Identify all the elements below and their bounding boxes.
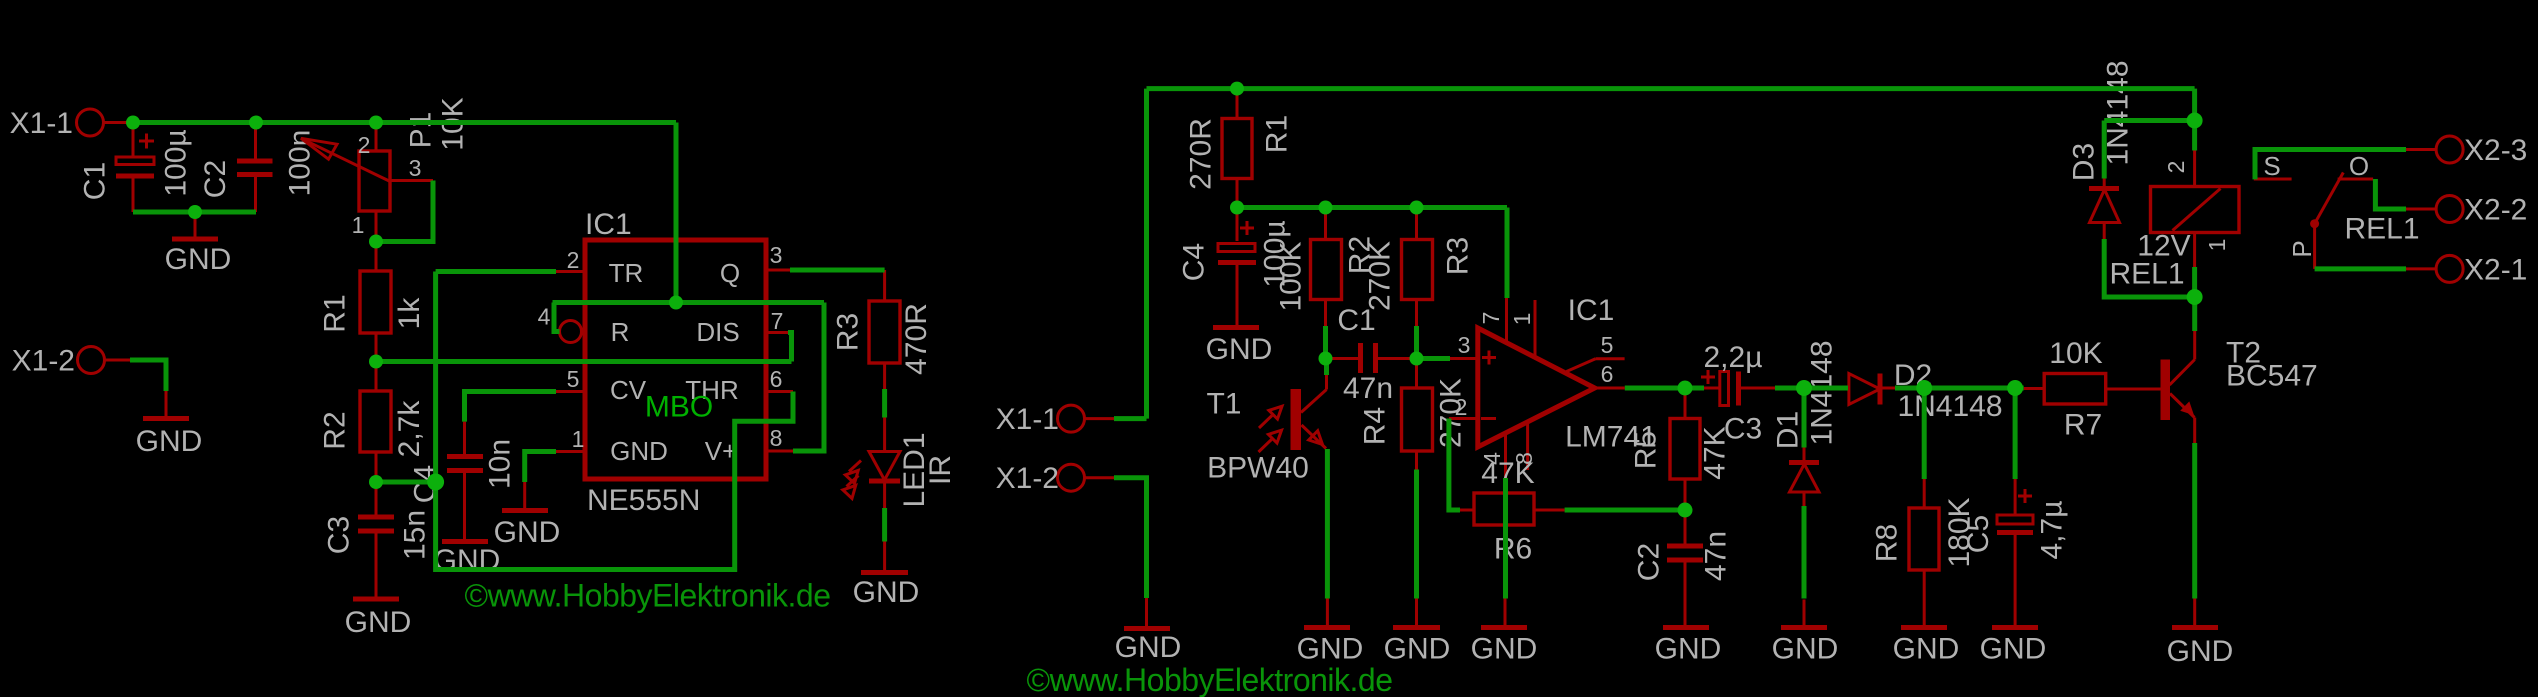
wire X1-1 to riser — [1114, 416, 1147, 421]
resistor R1 270R — [1185, 89, 1294, 208]
node junction R6/R5/C2 — [1678, 503, 1693, 518]
pad X2-2 — [2406, 194, 2527, 227]
wire TR pin2 link — [436, 269, 556, 274]
svg-text:BPW40: BPW40 — [1207, 452, 1309, 485]
ground GND (C1/C2) — [165, 212, 232, 276]
svg-text:R1: R1 — [319, 294, 352, 332]
svg-text:10n: 10n — [484, 439, 517, 489]
wire V+ to vcc rail — [793, 303, 824, 452]
node junction D1 — [1796, 380, 1812, 396]
svg-text:270K: 270K — [1364, 241, 1397, 311]
pin 2 TR — [556, 247, 585, 273]
svg-text:1: 1 — [2204, 239, 2230, 252]
wire pin7 riser — [1505, 208, 1510, 299]
svg-text:GND: GND — [434, 544, 501, 577]
pad X1-1 (rx) — [996, 403, 1114, 436]
svg-text:X1-1: X1-1 — [10, 107, 73, 140]
node junction R3 — [1410, 201, 1424, 215]
wire X2-1 net — [2315, 266, 2406, 271]
svg-text:GND: GND — [345, 606, 412, 639]
node junction P1 — [369, 116, 383, 130]
wire R3 to LED1 — [882, 389, 887, 418]
pin 7 DIS — [766, 308, 788, 334]
switch contact O — [2338, 151, 2374, 181]
pin 4 R bubble — [538, 304, 586, 343]
svg-text:NE555N: NE555N — [587, 484, 700, 517]
svg-text:X1-2: X1-2 — [996, 462, 1059, 495]
ground GND (C4) — [434, 542, 501, 578]
ground GND (C2 rx) — [1655, 628, 1722, 666]
svg-text:BC547: BC547 — [2226, 360, 2318, 393]
node junction out/R5 — [1678, 381, 1693, 396]
svg-text:Q: Q — [720, 258, 740, 288]
svg-text:GND: GND — [1980, 633, 2047, 666]
node junction R2 — [1319, 201, 1333, 215]
ground GND (C3) — [345, 599, 412, 639]
resistor R2 2,7k — [319, 362, 427, 483]
svg-text:4,7µ: 4,7µ — [2036, 501, 2069, 560]
pin 7 V+ — [1478, 298, 1507, 343]
svg-text:D3: D3 — [2068, 143, 2101, 181]
pin 5 — [1567, 332, 1625, 372]
wire X2-2 net — [2375, 179, 2406, 209]
svg-text:GND: GND — [1772, 633, 1839, 666]
svg-text:R3: R3 — [1442, 237, 1475, 275]
node junction R1 top — [1230, 82, 1244, 96]
pin 6 out — [1595, 361, 1625, 388]
svg-text:©www.HobbyElektronik.de: ©www.HobbyElektronik.de — [1027, 662, 1393, 697]
wire reset rail — [553, 300, 825, 305]
svg-text:GND: GND — [1115, 631, 1182, 664]
wire Q to R3 — [790, 268, 885, 273]
capacitor C3 2,2µ — [1701, 341, 1775, 446]
pin 6 THR — [766, 366, 793, 392]
svg-text:MBO: MBO — [645, 391, 713, 424]
node junction D3 top — [2187, 113, 2203, 129]
wire pin1 to gnd — [525, 452, 556, 483]
ground GND (X1-2 rx) — [1115, 598, 1182, 664]
svg-text:10K: 10K — [2049, 337, 2102, 370]
wire relay drop from rail — [2192, 89, 2197, 151]
wire C1-C2 ground link — [133, 210, 256, 215]
svg-text:D1: D1 — [1772, 411, 1805, 449]
wire relay bottom node — [2192, 267, 2197, 297]
pin 8 V+ — [766, 425, 793, 451]
wire pin4 to gnd — [1503, 478, 1508, 599]
svg-text:REL1: REL1 — [2344, 213, 2419, 246]
svg-text:GND: GND — [1655, 633, 1722, 666]
diode D3 1N4148 — [2068, 60, 2135, 239]
svg-text:3: 3 — [409, 155, 422, 181]
svg-text:C4: C4 — [1178, 243, 1211, 281]
svg-text:47n: 47n — [1700, 531, 1733, 581]
pin 2 -in — [1449, 394, 1478, 420]
svg-text:4: 4 — [538, 304, 551, 330]
node junction pot/R1 — [369, 235, 383, 249]
pad X1-2 — [12, 345, 130, 378]
wire D1 to gnd — [1802, 506, 1807, 599]
svg-text:GND: GND — [1206, 333, 1273, 366]
ground GND (pin4) — [1471, 599, 1538, 666]
node junction C5 — [2007, 380, 2023, 396]
diode D1 1N4148 — [1772, 340, 1839, 506]
svg-text:©www.HobbyElektronik.de: ©www.HobbyElektronik.de — [465, 578, 831, 614]
node junction R2/C3/trigger trunk — [427, 474, 444, 491]
wire +in link — [1417, 356, 1451, 361]
resistor R7 10K — [2024, 337, 2161, 442]
ground GND (X1-2) — [136, 391, 203, 458]
svg-text:C3: C3 — [323, 516, 356, 554]
node junction T1/C1 — [1319, 352, 1333, 366]
capacitor C1 100µ — [79, 123, 193, 213]
svg-text:R8: R8 — [1871, 524, 1904, 562]
svg-text:C2: C2 — [199, 160, 232, 198]
wire T2 collector — [2192, 297, 2197, 331]
ground GND (T1) — [1297, 599, 1364, 666]
svg-text:T1: T1 — [1206, 388, 1241, 421]
svg-text:GND: GND — [1297, 633, 1364, 666]
svg-text:2: 2 — [358, 132, 371, 158]
wire trigger trunk TR/THR — [436, 272, 793, 570]
switch arm P — [2287, 173, 2343, 269]
svg-text:GND: GND — [494, 516, 561, 549]
svg-text:R6: R6 — [1494, 533, 1532, 566]
svg-text:R5: R5 — [1630, 431, 1663, 469]
wire R6 to out node — [1565, 508, 1685, 513]
node junction R8 — [1916, 380, 1932, 396]
svg-text:R: R — [611, 317, 630, 347]
node junction D3 bottom — [2187, 289, 2203, 305]
svg-text:IC1: IC1 — [1568, 294, 1615, 327]
node junction vcc/reset — [669, 296, 683, 310]
capacitor C2 47n (rx) — [1633, 510, 1733, 626]
svg-text:GND: GND — [1471, 633, 1538, 666]
svg-text:1N4148: 1N4148 — [1897, 390, 2002, 423]
svg-text:7: 7 — [771, 308, 784, 334]
svg-text:R2: R2 — [319, 411, 352, 449]
svg-text:1: 1 — [1509, 313, 1535, 326]
pad X1-1 — [10, 107, 133, 140]
wire R4 to gnd — [1414, 470, 1419, 599]
node junction R2/C3 — [369, 475, 383, 489]
resistor R3 470R — [832, 270, 934, 389]
svg-text:1: 1 — [572, 426, 585, 452]
svg-text:GND: GND — [853, 576, 920, 609]
resistor R6 47K — [1460, 457, 1565, 566]
svg-text:R4: R4 — [1359, 407, 1392, 445]
wire D3 to relay bottom — [2104, 239, 2194, 297]
diode LED1 IR — [843, 418, 957, 509]
switch contact S — [2254, 151, 2292, 181]
svg-text:100K: 100K — [1275, 241, 1308, 311]
ground GND (R4) — [1384, 599, 1451, 666]
svg-text:2: 2 — [2163, 161, 2189, 174]
pin 3 +in — [1450, 332, 1478, 359]
svg-text:8: 8 — [770, 425, 783, 451]
ground GND (R8) — [1893, 628, 1960, 666]
wire VCC top rail — [133, 120, 676, 125]
capacitor C4 10n — [409, 422, 517, 540]
wire R2 bottom to trunk — [376, 480, 436, 485]
capacitor C5 4,7µ — [1962, 479, 2069, 626]
svg-text:1k: 1k — [393, 297, 426, 330]
pin 1 GND — [556, 426, 585, 452]
svg-text:C2: C2 — [1633, 543, 1666, 581]
svg-text:DIS: DIS — [696, 317, 739, 347]
svg-text:3: 3 — [770, 242, 783, 268]
wire D3 drop — [2102, 121, 2107, 179]
diode D2 1N4148 — [1849, 359, 2003, 423]
svg-text:CV: CV — [610, 375, 647, 405]
potentiometer P1 10K — [301, 97, 470, 241]
wire pot wiper to pin1 — [376, 181, 433, 242]
svg-text:470R: 470R — [900, 303, 933, 375]
wire R3 to +in node — [1414, 326, 1419, 359]
node junction R1/R2 — [369, 355, 383, 369]
svg-text:R3: R3 — [832, 313, 865, 351]
transistor T2 BC547 — [2161, 331, 2318, 443]
svg-text:GND: GND — [1384, 633, 1451, 666]
svg-text:5: 5 — [1601, 332, 1614, 358]
svg-text:S: S — [2263, 151, 2280, 181]
svg-text:100µ: 100µ — [160, 129, 193, 196]
ground GND (IC1 pin1) — [494, 482, 561, 549]
svg-text:1N4148: 1N4148 — [1806, 340, 1839, 445]
capacitor C4 100µ (rx) — [1178, 208, 1292, 327]
transistor T1 BPW40 — [1206, 375, 1326, 485]
pin 4 V- — [1479, 434, 1506, 478]
svg-text:R7: R7 — [2064, 409, 2102, 442]
wire CV to C4 — [465, 392, 557, 422]
svg-text:P: P — [2287, 240, 2317, 257]
resistor R1 1k — [319, 242, 427, 362]
svg-text:6: 6 — [770, 366, 783, 392]
svg-text:R1: R1 — [1261, 115, 1294, 153]
wire X2-3 net — [2255, 150, 2406, 180]
svg-text:X1-1: X1-1 — [996, 403, 1059, 436]
ground GND (D1) — [1772, 600, 1839, 666]
wire out bus — [1625, 386, 1704, 391]
resistor R8 180K — [1871, 479, 1977, 626]
capacitor C1 47n (rx) — [1326, 304, 1417, 405]
svg-text:7: 7 — [1478, 312, 1504, 325]
wire DIS drop — [788, 333, 792, 362]
svg-text:X2-2: X2-2 — [2464, 194, 2527, 227]
svg-text:TR: TR — [609, 258, 644, 288]
svg-text:GND: GND — [610, 436, 668, 466]
svg-text:REL1: REL1 — [2109, 258, 2184, 291]
pad X2-3 — [2406, 134, 2527, 167]
svg-text:2: 2 — [567, 247, 580, 273]
svg-text:C1: C1 — [79, 162, 112, 200]
wire R1/R2 node to DIS — [376, 359, 792, 364]
resistor R5 47K — [1630, 388, 1732, 510]
svg-text:IR: IR — [924, 455, 957, 485]
svg-text:O: O — [2349, 151, 2369, 181]
svg-text:47n: 47n — [1343, 372, 1393, 405]
ground GND (LED1) — [853, 542, 920, 610]
node junction C1 — [126, 116, 140, 130]
svg-text:X1-2: X1-2 — [12, 345, 75, 378]
svg-text:3: 3 — [1458, 332, 1471, 358]
pin 8 — [1511, 422, 1537, 470]
capacitor C3 15n — [323, 482, 432, 597]
resistor R2 100K (rx) — [1275, 208, 1377, 327]
wire T1 emitter to gnd — [1325, 449, 1330, 599]
svg-text:6: 6 — [1601, 361, 1614, 387]
svg-text:GND: GND — [2167, 635, 2234, 668]
svg-text:GND: GND — [1893, 633, 1960, 666]
svg-text:X2-3: X2-3 — [2464, 134, 2527, 167]
node junction gnd link — [188, 205, 202, 219]
node junction C2 — [249, 116, 263, 130]
ground GND (T2) — [2167, 599, 2234, 669]
pad X2-1 — [2406, 254, 2527, 287]
svg-text:1: 1 — [352, 212, 365, 238]
wire -in to R6 — [1449, 419, 1460, 511]
node junction +in — [1410, 352, 1424, 366]
relay coil REL1 12V — [2109, 151, 2239, 291]
wire D3 top link — [2104, 118, 2194, 123]
wire R2 to T1 node — [1323, 326, 1328, 359]
wire vcc2 bus — [1237, 205, 1507, 210]
wire reset drop — [554, 303, 560, 332]
svg-text:GND: GND — [165, 243, 232, 276]
wire left supply riser — [1144, 89, 1149, 419]
svg-text:C5: C5 — [1962, 515, 1995, 553]
ground GND (C5) — [1980, 628, 2047, 666]
wire T2 emitter to gnd — [2192, 443, 2197, 599]
wire X1-2 to gnd — [130, 360, 166, 391]
capacitor C2 100n — [199, 123, 317, 213]
resistor R4 270K — [1359, 359, 1468, 470]
svg-text:2: 2 — [1455, 394, 1468, 420]
pin 5 CV — [556, 366, 585, 392]
pin 1 — [1509, 300, 1535, 357]
wire LED1 to gnd — [882, 508, 887, 542]
pin 3 Q — [766, 242, 790, 270]
svg-text:2,7k: 2,7k — [393, 400, 426, 458]
wire X1-2 to gnd — [1114, 478, 1147, 598]
svg-text:C3: C3 — [1724, 413, 1762, 446]
svg-text:5: 5 — [567, 366, 580, 392]
wire VCC drop to IC1 — [674, 123, 679, 303]
svg-text:P1: P1 — [405, 112, 438, 149]
pad X1-2 (rx) — [996, 462, 1114, 495]
wire T1 collector — [1324, 359, 1329, 376]
svg-text:X2-1: X2-1 — [2464, 254, 2527, 287]
svg-text:GND: GND — [136, 425, 203, 458]
node junction C4 — [1230, 201, 1244, 215]
wire +12V top rail — [1147, 86, 2195, 91]
op IC1 NE555N body — [585, 208, 766, 517]
op-amp IC1 LM741 — [1478, 294, 1657, 454]
wire D2 to R7 — [1895, 386, 2024, 391]
wire C3 to D1/D2 — [1775, 386, 1848, 391]
resistor R3 270K (rx) — [1364, 208, 1475, 327]
svg-text:270R: 270R — [1185, 118, 1218, 190]
svg-text:15n: 15n — [399, 510, 432, 560]
svg-text:C1: C1 — [1337, 304, 1375, 337]
svg-text:2,2µ: 2,2µ — [1704, 341, 1763, 374]
svg-text:IC1: IC1 — [585, 208, 632, 241]
ground GND (C4 rx) — [1206, 328, 1273, 367]
wire R8 drop — [1922, 388, 1927, 479]
wire C5 drop — [2013, 388, 2018, 479]
